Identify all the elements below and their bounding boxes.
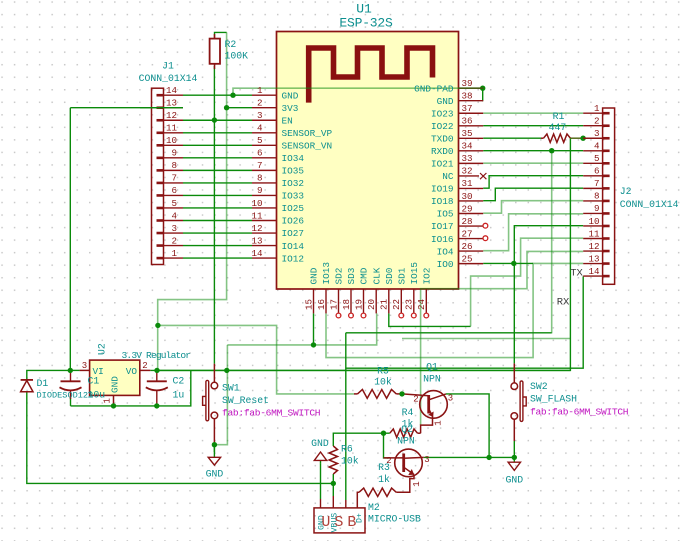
J1 pin 2 bbox=[164, 245, 184, 247]
svg-text:EN: EN bbox=[282, 115, 293, 126]
svg-text:10: 10 bbox=[166, 135, 177, 146]
U1 bottom pin 21 SD0 bbox=[388, 289, 390, 313]
svg-text:R1: R1 bbox=[553, 111, 565, 122]
svg-text:SW_FLASH: SW_FLASH bbox=[530, 394, 577, 405]
svg-text:18: 18 bbox=[341, 299, 352, 310]
wire D- row from RX column to USB bbox=[346, 332, 552, 334]
wire J1 pin5 row to ESP pin10 bbox=[183, 207, 252, 209]
capacitor C1 10u bbox=[60, 370, 82, 399]
svg-text:IO32: IO32 bbox=[282, 178, 305, 189]
wire IO13 from ESP pin16 down bbox=[326, 263, 583, 357]
J1 pin 4 bbox=[164, 220, 184, 222]
svg-text:IO13: IO13 bbox=[321, 262, 332, 285]
wire junction bbox=[154, 403, 159, 408]
svg-text:IO25: IO25 bbox=[282, 203, 305, 214]
svg-text:1u: 1u bbox=[173, 390, 185, 401]
J2 pin 8 bbox=[583, 200, 602, 202]
J2 pin 10 bbox=[583, 225, 602, 227]
svg-text:9: 9 bbox=[257, 185, 263, 196]
svg-text:C2: C2 bbox=[173, 376, 185, 387]
U1 right pin 36 IO22 bbox=[459, 125, 484, 127]
svg-text:17: 17 bbox=[328, 299, 339, 310]
svg-text:CONN_01X14: CONN_01X14 bbox=[139, 73, 198, 84]
wire D- vertical to USB bbox=[345, 333, 347, 500]
U1 bottom pin 17 SD2 bbox=[338, 289, 340, 313]
svg-text:GND: GND bbox=[437, 96, 454, 107]
wire J1 pin1 row to ESP pin14 bbox=[183, 257, 252, 259]
connector J2 CONN_01X14 body bbox=[603, 108, 615, 284]
U1 left pin 1 GND bbox=[252, 94, 277, 96]
wire USB GND pin up to GND flag bbox=[320, 463, 322, 499]
J2 pin 5 bbox=[583, 162, 602, 164]
svg-text:9: 9 bbox=[171, 148, 177, 159]
svg-text:10k: 10k bbox=[341, 456, 359, 467]
U1 bottom pin 20 CLK bbox=[375, 289, 377, 313]
wire GND pin15 down bbox=[313, 313, 315, 345]
svg-text:GND-PAD: GND-PAD bbox=[414, 83, 454, 94]
svg-text:7: 7 bbox=[594, 178, 600, 189]
svg-text:34: 34 bbox=[462, 141, 474, 152]
svg-text:NC: NC bbox=[442, 171, 454, 182]
wire Q1 collector to SW2 bottom junction bbox=[446, 394, 489, 458]
diode D1 DIODESOD123 bbox=[21, 380, 33, 392]
U2 pin 2 VO stub bbox=[140, 369, 151, 371]
U1 right pin 30 IO18 bbox=[459, 200, 484, 202]
J2 pin 3 bbox=[583, 137, 602, 139]
U1 left pin 6 IO34 bbox=[252, 157, 277, 159]
resistor R5 10k bbox=[358, 390, 397, 399]
svg-text:Q1: Q1 bbox=[426, 362, 438, 373]
wire J1 pin2 row to ESP pin13 bbox=[183, 245, 252, 247]
wire VO row continuing right (GND row to SW2 area) bbox=[227, 369, 571, 371]
svg-text:11: 11 bbox=[166, 123, 178, 134]
U1 right pin 27 IO16 bbox=[459, 238, 484, 240]
svg-text:6: 6 bbox=[257, 148, 263, 159]
svg-text:IO23: IO23 bbox=[431, 108, 454, 119]
svg-text:IO16: IO16 bbox=[431, 234, 454, 245]
wire GND overlay over pin 39 stub bbox=[459, 87, 484, 89]
svg-text:24: 24 bbox=[416, 298, 427, 310]
svg-text:29: 29 bbox=[462, 203, 473, 214]
svg-text:CLK: CLK bbox=[371, 267, 382, 284]
svg-text:RX: RX bbox=[557, 297, 570, 309]
J2 pin 7 bbox=[583, 187, 602, 189]
wire IO22 row to J2 pin2 bbox=[483, 125, 583, 127]
svg-text:3.3V Regulator: 3.3V Regulator bbox=[122, 350, 191, 361]
R4 node to Q1 emitter red link bbox=[421, 416, 433, 433]
svg-text:R5: R5 bbox=[377, 366, 389, 377]
svg-text:4: 4 bbox=[594, 141, 600, 152]
U1 bottom pin 22 SD1 bbox=[400, 289, 402, 313]
svg-text:1: 1 bbox=[257, 85, 263, 96]
U1 bottom pin 15 GND bbox=[313, 289, 315, 313]
wire C1 bottom connection bbox=[70, 397, 72, 406]
svg-text:7: 7 bbox=[171, 173, 177, 184]
wire IO0 row to J2 pin13 bbox=[483, 262, 533, 264]
wire regulator output VO row to 3V3 node bbox=[150, 369, 227, 371]
svg-text:2: 2 bbox=[257, 98, 263, 109]
wire J1 pin9 row to ESP pin6 bbox=[183, 157, 252, 159]
svg-text:4: 4 bbox=[171, 210, 177, 221]
svg-text:SW1: SW1 bbox=[222, 383, 240, 394]
wire RXD0 row to J2 pin4 bbox=[483, 150, 583, 152]
wire J2 pin12 down to Q1 emitter resistor node bbox=[421, 251, 584, 425]
svg-text:2: 2 bbox=[386, 456, 391, 466]
wire capacitor GND row under regulator bbox=[71, 370, 191, 406]
svg-text:3: 3 bbox=[82, 361, 87, 371]
wire SD0 staircase up to J2 pin11 (highlighted part) bbox=[471, 238, 584, 326]
wire junction bbox=[212, 117, 217, 122]
U1 bottom pin 19 CMD bbox=[363, 289, 365, 313]
svg-text:1: 1 bbox=[594, 103, 600, 114]
svg-text:fab:fab-6MM_SWITCH: fab:fab-6MM_SWITCH bbox=[222, 408, 320, 419]
wire junction bbox=[212, 442, 217, 447]
svg-text:1: 1 bbox=[434, 420, 444, 425]
svg-text:IO18: IO18 bbox=[431, 196, 454, 207]
wire junction bbox=[381, 431, 386, 436]
svg-text:IO15: IO15 bbox=[409, 262, 420, 285]
svg-text:16: 16 bbox=[316, 299, 327, 310]
wire R2 bottom / EN vertical down to SW1 bbox=[213, 66, 215, 364]
svg-text:CMD: CMD bbox=[359, 267, 370, 284]
U1 bottom pin 18 SD3 bbox=[350, 289, 352, 313]
J1 pin 11 bbox=[164, 132, 184, 134]
3V3 wire into R5 bbox=[158, 325, 354, 394]
svg-text:ESP-32S: ESP-32S bbox=[339, 16, 393, 31]
wire regulator row VI bbox=[70, 369, 79, 371]
svg-text:R6: R6 bbox=[341, 444, 353, 455]
wire GND-PAD pin39 to junction bbox=[482, 87, 485, 89]
wire R6 top to R4 node row bbox=[333, 433, 390, 446]
wire IO19 staircase to J2 pin6 bbox=[483, 176, 583, 189]
wire J1 pin12 row to ESP pin3 bbox=[183, 119, 252, 121]
wire left feed vertical to regulator input bbox=[69, 108, 71, 371]
svg-text:6: 6 bbox=[171, 185, 177, 196]
J2 pin 6 bbox=[583, 175, 602, 177]
wire RXD0 highlighted row to Q1 base node bbox=[402, 338, 570, 340]
svg-text:1: 1 bbox=[171, 248, 177, 259]
U2 pin 3 VI stub bbox=[80, 369, 90, 371]
svg-text:28: 28 bbox=[462, 216, 473, 227]
svg-text:IO17: IO17 bbox=[431, 221, 454, 232]
M2 pin D- bbox=[345, 500, 347, 508]
svg-text:IO27: IO27 bbox=[282, 228, 305, 239]
U1 bottom pin 24 IO2 bbox=[425, 289, 427, 313]
svg-text:IO22: IO22 bbox=[431, 121, 454, 132]
U1 left pin 9 IO33 bbox=[252, 194, 277, 196]
U1 right pin 35 TXD0 bbox=[459, 137, 484, 139]
svg-text:14: 14 bbox=[166, 85, 178, 96]
U1 right pin 31 IO19 bbox=[459, 187, 484, 189]
wire junction bbox=[549, 148, 554, 153]
wire junction bbox=[224, 105, 229, 110]
svg-text:3V3: 3V3 bbox=[282, 103, 299, 114]
svg-text:9: 9 bbox=[594, 203, 600, 214]
U1 right pin 25 IO0 bbox=[459, 263, 484, 265]
wire R6 bottom to VBUS junction bbox=[332, 474, 334, 483]
svg-text:2: 2 bbox=[142, 361, 147, 371]
J1 pin 7 bbox=[164, 182, 184, 184]
wire J1 pin4 row to ESP pin11 bbox=[183, 220, 252, 222]
svg-text:1: 1 bbox=[412, 481, 422, 486]
svg-text:IO34: IO34 bbox=[282, 153, 305, 164]
svg-text:3: 3 bbox=[594, 128, 600, 139]
svg-text:22: 22 bbox=[391, 299, 402, 310]
wire from left feed to J1 pin13 bbox=[70, 107, 183, 109]
svg-text:DIODESOD123: DIODESOD123 bbox=[37, 391, 94, 401]
J1 pin 8 bbox=[164, 169, 184, 171]
svg-text:TXD0: TXD0 bbox=[431, 134, 454, 145]
svg-text:3: 3 bbox=[424, 455, 429, 465]
wire IO21 row to J2 pin5 (highlighted) bbox=[483, 162, 583, 164]
U1 left pin 13 IO14 bbox=[252, 245, 277, 247]
switch SW2 SW_FLASH bbox=[511, 363, 526, 441]
wire IO23 row to J2 pin1 (highlighted) bbox=[483, 112, 583, 114]
svg-text:2: 2 bbox=[594, 116, 600, 127]
U2 pin 1 GND stub bbox=[113, 395, 115, 406]
wire J1 pin11 row to ESP pin4 bbox=[183, 132, 252, 134]
svg-text:19: 19 bbox=[353, 299, 364, 310]
wire junction bbox=[486, 455, 491, 460]
svg-text:GND: GND bbox=[206, 469, 224, 480]
svg-text:IO0: IO0 bbox=[437, 259, 454, 270]
U1 right pin 26 IO4 bbox=[459, 250, 484, 252]
svg-text:MICRO-USB: MICRO-USB bbox=[368, 514, 421, 525]
U1 right pin 34 RXD0 bbox=[459, 150, 484, 152]
wire J1 pin10 row to ESP pin5 bbox=[183, 144, 252, 146]
resistor R4 1k bbox=[390, 429, 418, 437]
svg-text:SW2: SW2 bbox=[530, 381, 548, 392]
connector J1 CONN_01X14 body bbox=[152, 88, 164, 264]
wire junction bbox=[399, 391, 404, 396]
svg-text:14: 14 bbox=[588, 266, 600, 277]
svg-text:SW_Reset: SW_Reset bbox=[222, 395, 269, 406]
svg-text:5: 5 bbox=[171, 198, 177, 209]
wire junction bbox=[111, 403, 116, 408]
connector M2 MICRO-USB body bbox=[314, 508, 365, 533]
svg-text:RXD0: RXD0 bbox=[431, 146, 454, 157]
U1 left pin 3 EN bbox=[252, 119, 277, 121]
J1 pin 9 bbox=[164, 157, 184, 159]
capacitor C2 1u bbox=[146, 370, 168, 406]
svg-text:11: 11 bbox=[251, 210, 263, 221]
svg-text:447: 447 bbox=[549, 122, 567, 133]
svg-text:14: 14 bbox=[251, 248, 263, 259]
wire junction bbox=[511, 261, 516, 266]
wire J1 pin14 to ESP GND pin1 bbox=[183, 94, 252, 96]
svg-text:37: 37 bbox=[462, 103, 473, 114]
U1 antenna symbol bbox=[309, 48, 433, 103]
svg-text:26: 26 bbox=[462, 241, 473, 252]
wire IO5 staircase to J2 pin8 (highlighted) bbox=[483, 201, 583, 214]
svg-text:IO19: IO19 bbox=[431, 184, 454, 195]
U1 left pin 5 SENSOR_VN bbox=[252, 144, 277, 146]
wire IO18 staircase to J2 pin7 bbox=[483, 188, 583, 201]
U1 left pin 14 IO12 bbox=[252, 257, 277, 259]
svg-text:27: 27 bbox=[462, 228, 473, 239]
svg-text:GND: GND bbox=[505, 475, 523, 486]
svg-text:12: 12 bbox=[166, 110, 177, 121]
wire R4 junction down to Q2 base bbox=[384, 433, 391, 458]
U1 left pin 2 3V3 bbox=[252, 107, 277, 109]
U1 right pin 28 IO17 bbox=[459, 225, 484, 227]
resistor R6 10k bbox=[329, 446, 337, 474]
svg-text:8: 8 bbox=[594, 191, 600, 202]
svg-text:38: 38 bbox=[462, 91, 473, 102]
J2 pin 12 bbox=[583, 250, 602, 252]
wire J1 pin13 row overlay over J1 body bbox=[140, 107, 183, 109]
svg-text:21: 21 bbox=[379, 298, 390, 310]
svg-text:3: 3 bbox=[171, 223, 177, 234]
svg-text:J2: J2 bbox=[620, 186, 632, 197]
ground below SW2 bbox=[508, 457, 520, 470]
svg-text:NPN: NPN bbox=[423, 374, 441, 385]
svg-text:SD0: SD0 bbox=[384, 267, 395, 284]
svg-text:SD2: SD2 bbox=[334, 268, 345, 285]
J1 pin 14 bbox=[164, 94, 184, 96]
svg-text:15: 15 bbox=[303, 299, 314, 310]
svg-text:100K: 100K bbox=[225, 51, 249, 62]
svg-text:6: 6 bbox=[594, 166, 600, 177]
svg-text:IO26: IO26 bbox=[282, 216, 305, 227]
J1 pin 1 bbox=[164, 257, 184, 259]
svg-text:IO4: IO4 bbox=[437, 246, 454, 257]
svg-text:12: 12 bbox=[588, 241, 599, 252]
U1 bottom pin 16 IO13 bbox=[325, 289, 327, 313]
svg-text:2: 2 bbox=[171, 235, 177, 246]
wire TXD0 row to R1 bbox=[483, 137, 541, 139]
svg-text:10: 10 bbox=[588, 216, 599, 227]
wire SW1 bottom junction to GND bbox=[213, 445, 215, 452]
svg-text:SD1: SD1 bbox=[397, 267, 408, 284]
wire GND row from ESP pin20 down to row bbox=[227, 313, 376, 345]
svg-text:IO33: IO33 bbox=[282, 191, 305, 202]
svg-text:IO5: IO5 bbox=[437, 209, 454, 220]
svg-text:IO14: IO14 bbox=[282, 241, 305, 252]
U1 right pin 33 IO21 bbox=[459, 162, 484, 164]
wire junction bbox=[580, 136, 585, 141]
switch SW1 SW_Reset bbox=[203, 364, 218, 445]
unconnected pin ends IO17 IO16 bbox=[483, 223, 488, 228]
svg-text:36: 36 bbox=[462, 116, 473, 127]
svg-text:C1: C1 bbox=[88, 376, 100, 387]
svg-text:8: 8 bbox=[171, 160, 177, 171]
J2 pin 2 bbox=[583, 125, 602, 127]
wire TX vertical from R1 down bbox=[157, 138, 570, 370]
J1 pin 12 bbox=[164, 119, 184, 121]
svg-text:13: 13 bbox=[251, 235, 262, 246]
resistor R3 1k bbox=[359, 488, 396, 496]
svg-text:SD3: SD3 bbox=[346, 267, 357, 284]
wire junction bbox=[230, 93, 235, 98]
wire 3V3 highlighted vertical from R2 top down to regulator output bbox=[158, 32, 227, 370]
svg-text:NPN: NPN bbox=[397, 436, 415, 447]
U1 left pin 10 IO25 bbox=[252, 207, 277, 209]
U1 bottom pin 23 IO15 bbox=[413, 289, 415, 313]
svg-text:3: 3 bbox=[448, 394, 453, 404]
J2 pin 9 bbox=[583, 212, 602, 214]
U1 right pin 32 NC bbox=[459, 175, 480, 177]
wire VBUS junction down to USB pin bbox=[332, 483, 334, 496]
J2 pin 11 bbox=[583, 238, 602, 240]
U1 right pin 39 GND-PAD bbox=[459, 87, 484, 89]
J1 pin 5 bbox=[164, 207, 184, 209]
U1 ESP-32S module body bbox=[277, 32, 459, 290]
svg-text:U2: U2 bbox=[97, 343, 108, 355]
svg-text:IO21: IO21 bbox=[431, 159, 454, 170]
wire D1 branch left of VI junction bbox=[27, 370, 71, 379]
svg-text:10: 10 bbox=[251, 198, 262, 209]
wire J1 pin8 row to ESP pin7 bbox=[183, 169, 252, 171]
svg-text:GND: GND bbox=[309, 267, 320, 284]
U1 left pin 4 SENSOR_VP bbox=[252, 132, 277, 134]
wire GND highlighted: junction to SW1 bottom bbox=[214, 345, 227, 445]
svg-text:1k: 1k bbox=[378, 474, 390, 485]
svg-text:8: 8 bbox=[257, 173, 263, 184]
svg-text:3: 3 bbox=[257, 110, 263, 121]
U1 right pin 29 IO5 bbox=[459, 213, 484, 215]
svg-text:D1: D1 bbox=[37, 378, 49, 389]
svg-text:U1: U1 bbox=[356, 2, 372, 17]
U1 right pin 37 IO23 bbox=[459, 112, 484, 114]
resistor R2 100K (box style) bbox=[210, 34, 220, 69]
svg-text:5: 5 bbox=[594, 153, 600, 164]
wire R2 top jog bbox=[215, 32, 227, 38]
J1 pin 3 bbox=[164, 232, 184, 234]
wire GND net crossing U1 top (highlighted) bbox=[233, 88, 483, 95]
wire junction bbox=[512, 455, 517, 460]
U1 left pin 7 IO35 bbox=[252, 169, 277, 171]
svg-text:GND: GND bbox=[110, 376, 121, 393]
svg-text:20: 20 bbox=[366, 299, 377, 310]
regulator U2 body bbox=[90, 360, 140, 395]
wire IO4 to J2 pin9 (highlighted) bbox=[483, 214, 583, 251]
wire J1 pin3 row to ESP pin12 bbox=[183, 232, 252, 234]
J1 pin 10 bbox=[164, 144, 184, 146]
svg-text:12: 12 bbox=[251, 223, 262, 234]
svg-text:R2: R2 bbox=[225, 39, 237, 50]
svg-text:J1: J1 bbox=[162, 61, 174, 72]
svg-text:39: 39 bbox=[462, 78, 473, 89]
svg-text:33: 33 bbox=[462, 153, 473, 164]
wire J2 pin10 column down through IO0 junction to SW2 bbox=[514, 226, 583, 364]
wire junction bbox=[311, 342, 316, 347]
J2 pin 4 bbox=[583, 150, 602, 152]
wire TX J2 pin14 column down bbox=[346, 276, 583, 368]
svg-text:IO2: IO2 bbox=[422, 268, 433, 285]
wire J1 pin7 row to ESP pin8 bbox=[183, 182, 252, 184]
svg-text:5: 5 bbox=[257, 135, 263, 146]
wire junction bbox=[68, 368, 73, 373]
wire R1 to junction at J2 pin3 bbox=[570, 137, 583, 139]
svg-text:GND: GND bbox=[311, 438, 329, 449]
svg-text:SENSOR_VN: SENSOR_VN bbox=[282, 141, 333, 152]
svg-text:VO: VO bbox=[126, 366, 138, 377]
J2 pin 1 bbox=[583, 112, 602, 114]
U1 right pin 38 GND bbox=[459, 100, 484, 102]
svg-text:GND: GND bbox=[282, 90, 299, 101]
wire junction bbox=[224, 368, 229, 373]
U1 left pin 8 IO32 bbox=[252, 182, 277, 184]
svg-text:7: 7 bbox=[257, 160, 263, 171]
wire RX vertical from RXD0 junction down bbox=[551, 151, 553, 334]
svg-text:13: 13 bbox=[588, 253, 599, 264]
wire junction bbox=[155, 323, 160, 328]
svg-text:2: 2 bbox=[413, 395, 418, 405]
J2 pin 14 bbox=[583, 275, 602, 277]
U1 left pin 12 IO27 bbox=[252, 232, 277, 234]
U1 left pin 11 IO26 bbox=[252, 220, 277, 222]
